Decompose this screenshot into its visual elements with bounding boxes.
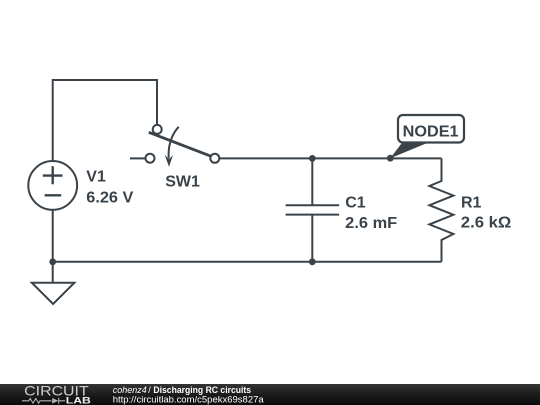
svg-text:6.26 V: 6.26 V xyxy=(86,190,133,207)
svg-text:cohenz4: cohenz4 xyxy=(113,385,147,395)
svg-text:LAB: LAB xyxy=(66,395,91,405)
svg-text:NODE1: NODE1 xyxy=(403,124,459,141)
svg-text:R1: R1 xyxy=(461,194,482,211)
svg-text:2.6 kΩ: 2.6 kΩ xyxy=(461,215,512,232)
svg-text:C1: C1 xyxy=(345,195,366,212)
svg-text:Discharging RC circuits: Discharging RC circuits xyxy=(153,385,251,395)
svg-text:V1: V1 xyxy=(86,169,106,186)
svg-text:http://circuitlab.com/c5pekx69: http://circuitlab.com/c5pekx69s827a xyxy=(113,395,265,405)
svg-text:2.6 mF: 2.6 mF xyxy=(345,215,397,232)
svg-text:SW1: SW1 xyxy=(165,174,200,191)
svg-text:/: / xyxy=(148,385,151,395)
